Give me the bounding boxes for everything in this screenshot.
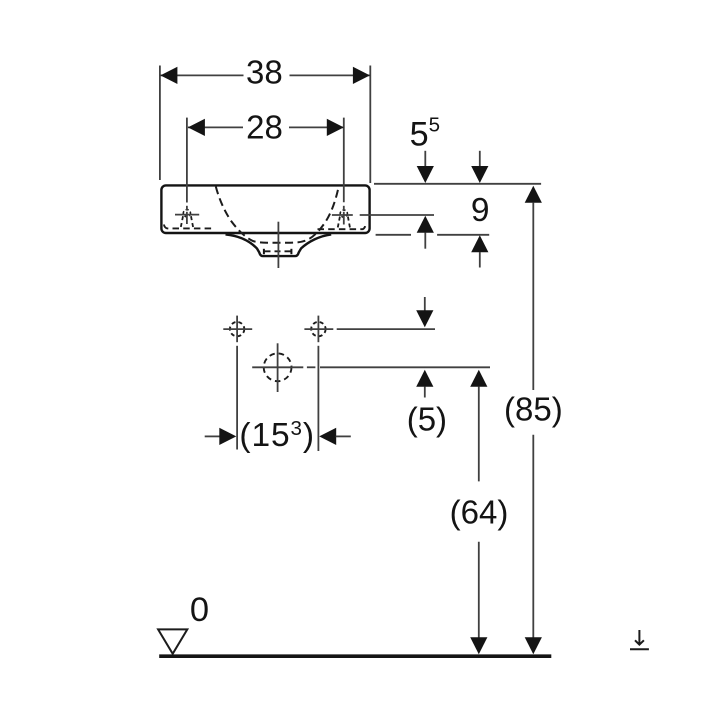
tap hole centerline cross right (332, 118, 353, 225)
dimension 64 up arrow (470, 370, 487, 387)
dimension 55 down arrow (424, 151, 426, 168)
dimension 64 down arrow (470, 637, 487, 654)
dashed tap hole circle right (340, 210, 347, 217)
floor line (159, 654, 551, 658)
bottom right floor reference symbol (630, 630, 649, 649)
dimension 9 down arrow (479, 151, 481, 168)
mounting hole left dashed circle (230, 322, 244, 336)
svg-text:(85): (85) (504, 390, 563, 427)
basin vertical centerline at drain (277, 222, 279, 268)
drain hole centerline vertical (277, 343, 279, 392)
dimension 5 down arrow (424, 297, 426, 311)
dimension 153 line left tail (205, 435, 220, 437)
svg-text:38: 38 (246, 53, 283, 90)
dashed bowl inner contour (216, 187, 339, 243)
dashed tap body outline left (181, 216, 194, 228)
dashed deck shelf line right (318, 226, 366, 230)
dimension 85 up arrow (525, 186, 542, 203)
dimension 38 arrowhead right (353, 67, 370, 84)
washbasin bottom bulge with drain foot (226, 234, 332, 256)
svg-text:(5): (5) (407, 401, 447, 438)
top edge reference line extended right (374, 183, 541, 185)
mounting axis reference line extended right (337, 328, 435, 330)
bottom edge reference line extended right (376, 234, 490, 236)
svg-text:5: 5 (410, 116, 429, 154)
mounting hole right dashed circle (311, 322, 325, 336)
drain foot inner notch left (263, 249, 265, 254)
svg-text:(64): (64) (450, 493, 509, 530)
svg-text:5: 5 (429, 114, 440, 137)
dimension 153 line right tail (336, 435, 351, 437)
dimension 38 extension line left (159, 66, 161, 181)
dimension 28 line (188, 126, 344, 128)
washbasin outer body outline (161, 185, 369, 233)
dimension 28 arrowhead right (327, 119, 344, 136)
dimension 55 up arrow (417, 216, 434, 233)
dimension 85 down arrow (525, 637, 542, 654)
dimension 153 arrowhead pointing right (219, 428, 236, 445)
dimension 5 up arrow (416, 370, 433, 387)
dimension 38 line (160, 74, 370, 76)
drain hole dashed circle (264, 353, 292, 381)
svg-text:9: 9 (471, 192, 490, 229)
mounting hole right centerlines (304, 316, 333, 451)
dashed tap hole circle left (183, 210, 190, 217)
svg-text:28: 28 (246, 109, 283, 146)
dimension 38 extension line right (369, 66, 371, 184)
mounting hole left centerlines (223, 316, 252, 450)
dimension 153 arrowhead pointing left (319, 428, 336, 445)
tap axis reference line extended right (360, 214, 434, 216)
svg-text:(153): (153) (239, 417, 315, 454)
drain foot inner notch right (290, 249, 292, 254)
tap hole centerline cross left (175, 118, 199, 224)
dimension 85 line (532, 202, 534, 637)
dimension 64 line (478, 387, 480, 638)
svg-text:0: 0 (190, 591, 209, 629)
dimension 38 arrowhead left (160, 67, 177, 84)
drain axis reference line (252, 366, 490, 368)
dimension 9 up arrow (471, 235, 488, 252)
dimension 28 arrowhead left (188, 119, 205, 136)
zero level datum triangle (158, 629, 187, 653)
dashed deck shelf line left (164, 225, 214, 229)
dashed overflow line inside drain foot (265, 250, 291, 252)
dashed tap body outline right (338, 217, 351, 229)
